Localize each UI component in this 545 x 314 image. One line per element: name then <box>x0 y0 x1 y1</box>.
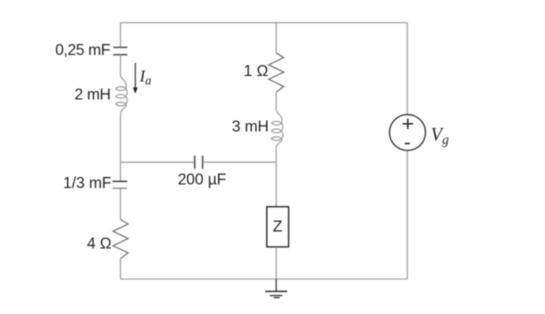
wire middle: top net to resistor 1 Ohm <box>275 23 277 53</box>
svg-text:2 mH: 2 mH <box>75 87 111 104</box>
label 0,25 mF <box>55 42 110 59</box>
wire: inductor 2 mH to node A <box>120 115 122 162</box>
wire: capacitor 200 uF to node B <box>203 161 277 163</box>
wire top (top net) <box>121 22 408 24</box>
resistor 4 Ohm <box>113 219 128 258</box>
wire: capacitor 0,25 mF to inductor 2 mH <box>120 55 122 75</box>
svg-text:Vg: Vg <box>431 125 449 147</box>
wire: node B to impedance Z <box>275 162 277 207</box>
svg-text:1 Ω: 1 Ω <box>244 63 269 80</box>
wire: capacitor 1/3 mF to resistor 4 Ohm <box>120 188 122 219</box>
capacitor 0,25 mF <box>113 47 127 54</box>
wire: node A to capacitor 200 uF <box>121 161 195 163</box>
wire: resistor 4 Ohm to bottom corner <box>120 259 122 279</box>
capacitor 200 uF <box>195 156 203 169</box>
resistor 1 Ohm <box>269 53 284 92</box>
inductor 3 mH <box>272 110 283 148</box>
ground <box>265 291 287 297</box>
svg-text:4 Ω: 4 Ω <box>87 236 112 253</box>
svg-text:3 mH: 3 mH <box>232 118 269 135</box>
label 1 Ohm <box>244 63 269 80</box>
svg-text:200 µF: 200 µF <box>178 172 227 189</box>
label 4 Ohm <box>87 236 112 253</box>
inductor L 2 mH <box>116 75 127 115</box>
wire: node A to capacitor 1/3 mF <box>120 162 122 181</box>
wire bottom (ground net) <box>121 278 408 280</box>
capacitor 1/3 mF <box>112 181 127 188</box>
label 3 mH <box>232 118 269 135</box>
label Ia <box>139 66 152 87</box>
svg-text:0,25 mF: 0,25 mF <box>55 42 110 59</box>
svg-text:Z: Z <box>273 218 283 235</box>
label 200 uF <box>178 172 227 189</box>
wire: bottom net to ground <box>275 279 277 291</box>
impedance Z box <box>267 207 289 247</box>
wire right: top corner to source Vg <box>406 23 408 115</box>
label 1/3 mF <box>63 175 111 192</box>
current arrow Ia <box>133 63 138 94</box>
wire: resistor 1 Ohm to inductor 3 mH <box>275 92 277 110</box>
wire: impedance Z to bottom net <box>275 247 277 279</box>
wire: inductor 3 mH to node B <box>275 148 277 162</box>
source Vg (independent voltage source) <box>390 115 426 151</box>
wire left: top corner to capacitor 0,25 mF <box>120 23 122 48</box>
label Vg <box>431 125 449 147</box>
wire right: source Vg to bottom corner <box>406 151 408 279</box>
svg-text:Ia: Ia <box>139 66 152 87</box>
svg-text:1/3 mF: 1/3 mF <box>63 175 111 192</box>
label 2 mH <box>75 87 111 104</box>
